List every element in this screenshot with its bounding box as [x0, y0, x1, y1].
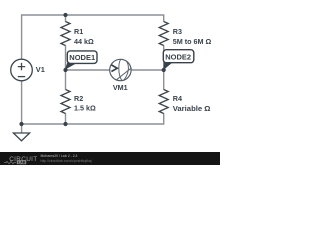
svg-text:44 kΩ: 44 kΩ — [74, 37, 94, 46]
svg-text:R3: R3 — [173, 27, 182, 36]
svg-text:Variable Ω: Variable Ω — [173, 104, 211, 113]
svg-text:1.5 kΩ: 1.5 kΩ — [74, 103, 96, 112]
svg-text:http //circuitlab.com/c/pxshlb: http //circuitlab.com/c/pxshlbqfkaj — [41, 159, 92, 163]
svg-text:R4: R4 — [173, 94, 182, 103]
svg-text:NODE1: NODE1 — [69, 53, 95, 62]
svg-text:V1: V1 — [36, 65, 45, 74]
svg-text:VM1: VM1 — [113, 83, 128, 92]
svg-text:R2: R2 — [74, 94, 83, 103]
svg-text:LAB: LAB — [18, 161, 26, 165]
svg-text:5M to 6M Ω: 5M to 6M Ω — [173, 37, 212, 46]
svg-text:NODE2: NODE2 — [165, 52, 191, 61]
svg-text:Mohams20 / Lab 2 - 2.3: Mohams20 / Lab 2 - 2.3 — [41, 154, 78, 158]
svg-text:R1: R1 — [74, 27, 83, 36]
